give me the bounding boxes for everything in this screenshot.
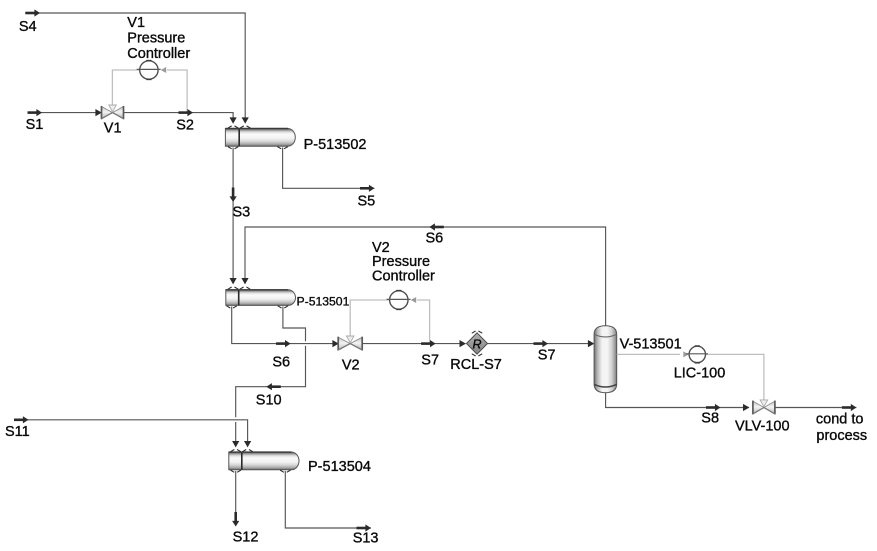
controller circle LIC-100 [689, 346, 705, 362]
signal arrow into V2 controller [411, 297, 417, 303]
wire stream S13 [285, 471, 371, 528]
svg-text:S2: S2 [176, 118, 194, 134]
port ticks P-513504 top [231, 450, 241, 452]
wire stream S6 [232, 307, 339, 344]
port ticks P-513504 bottom [231, 470, 241, 472]
controller circle V2 [390, 291, 408, 309]
wire stream S10 [236, 307, 306, 442]
arrow into valve V2 [332, 340, 338, 347]
wire stream S8 [606, 393, 749, 408]
arrow S12 direction [232, 512, 239, 527]
wire stream S2 [124, 113, 233, 118]
arrow S6 recycle direction [429, 223, 444, 230]
svg-text:RCL-S7: RCL-S7 [450, 357, 502, 373]
port ticks P-513502 top [228, 126, 238, 128]
arrow S3 into P-513501 [230, 278, 237, 284]
svg-text:S7: S7 [421, 352, 439, 368]
vessel V-513501 [594, 326, 617, 393]
wire stream S11 [15, 420, 248, 442]
arrow S4 into P-513502 [242, 117, 249, 123]
svg-text:Controller: Controller [127, 46, 190, 62]
svg-text:cond to: cond to [816, 412, 864, 428]
svg-text:Controller: Controller [372, 268, 435, 284]
port ticks P-513501 top [228, 287, 238, 289]
arrow S7a direction [421, 340, 436, 347]
svg-text:S6: S6 [426, 230, 444, 246]
svg-text:Pressure: Pressure [127, 30, 185, 46]
arrow S5 direction [360, 185, 375, 192]
arrow S4 direction [26, 9, 41, 16]
wire stream S6 recycle [245, 227, 606, 326]
svg-text:LIC-100: LIC-100 [674, 365, 726, 381]
vessel P-513501 [226, 290, 296, 306]
svg-text:S12: S12 [233, 530, 259, 546]
arrow S6 direction [276, 340, 291, 347]
wire stream S7a [362, 343, 465, 345]
svg-text:VLV-100: VLV-100 [735, 418, 790, 434]
signal wire V2 controller [350, 300, 429, 343]
arrow S1 direction [28, 109, 43, 116]
wire stream S3 [232, 148, 234, 279]
arrow S3 direction [230, 188, 237, 203]
signal arrow into V1 controller [161, 67, 167, 73]
svg-text:R: R [472, 337, 481, 351]
arrow S2 direction [179, 109, 194, 116]
svg-text:P-513504: P-513504 [308, 459, 371, 475]
valve V1 [102, 105, 124, 119]
svg-text:V1: V1 [127, 15, 145, 31]
wire stream S12 [235, 471, 237, 520]
svg-text:S13: S13 [353, 531, 379, 547]
arrow into valve VLV-100 [743, 404, 749, 411]
svg-text:S11: S11 [5, 424, 30, 440]
svg-text:S5: S5 [358, 194, 376, 210]
svg-text:P-513502: P-513502 [304, 137, 367, 153]
arrow cond direction [842, 404, 857, 411]
arrow S8 direction [706, 404, 721, 411]
svg-text:V2: V2 [342, 357, 360, 373]
arrow S10 into P-513504 [232, 441, 239, 447]
wire stream cond to process [775, 407, 856, 409]
wire stream S7b [488, 343, 594, 345]
arrow S11 direction [14, 416, 29, 423]
svg-text:V-513501: V-513501 [620, 336, 682, 352]
arrow S10 direction [266, 383, 281, 390]
signal wire V1 controller [112, 70, 187, 112]
svg-text:P-513501: P-513501 [297, 294, 350, 308]
svg-text:S10: S10 [256, 393, 282, 409]
arrow S7b direction [534, 340, 549, 347]
svg-text:S1: S1 [26, 117, 44, 133]
svg-text:V1: V1 [104, 120, 122, 136]
svg-text:process: process [816, 428, 867, 444]
arrow S13 direction [357, 524, 372, 531]
arrow S2 into P-513502 [230, 117, 237, 123]
port ticks P-513501 bottom [227, 306, 237, 308]
wire stream S1 [30, 112, 101, 114]
svg-text:S7: S7 [538, 348, 556, 364]
wire stream S4 feed [25, 13, 245, 118]
port ticks P-513502 bottom [228, 147, 238, 149]
svg-text:S4: S4 [19, 19, 37, 35]
arrow into valve V1 [95, 109, 101, 116]
arrow into RCL-S7 [460, 340, 466, 347]
svg-text:S8: S8 [701, 411, 719, 427]
valve V2 [338, 336, 362, 351]
controller circle V1 [140, 61, 158, 79]
arrow S11 into P-513504 [244, 441, 251, 447]
arrow S6 into P-513501 [241, 278, 248, 284]
block RCL-S7 port ticks [472, 331, 482, 333]
valve VLV-100 [753, 400, 775, 415]
vessel P-513504 [229, 452, 299, 470]
svg-text:S6: S6 [272, 354, 290, 370]
signal wire LIC-100 [617, 354, 764, 401]
block RCL-S7 diamond [467, 333, 488, 354]
vessel P-513502 [225, 129, 295, 147]
svg-text:S3: S3 [233, 205, 251, 221]
wire stream S5 [283, 148, 375, 189]
signal arrow into LIC-100 [683, 351, 689, 357]
arrow into V-513501 [588, 340, 594, 347]
